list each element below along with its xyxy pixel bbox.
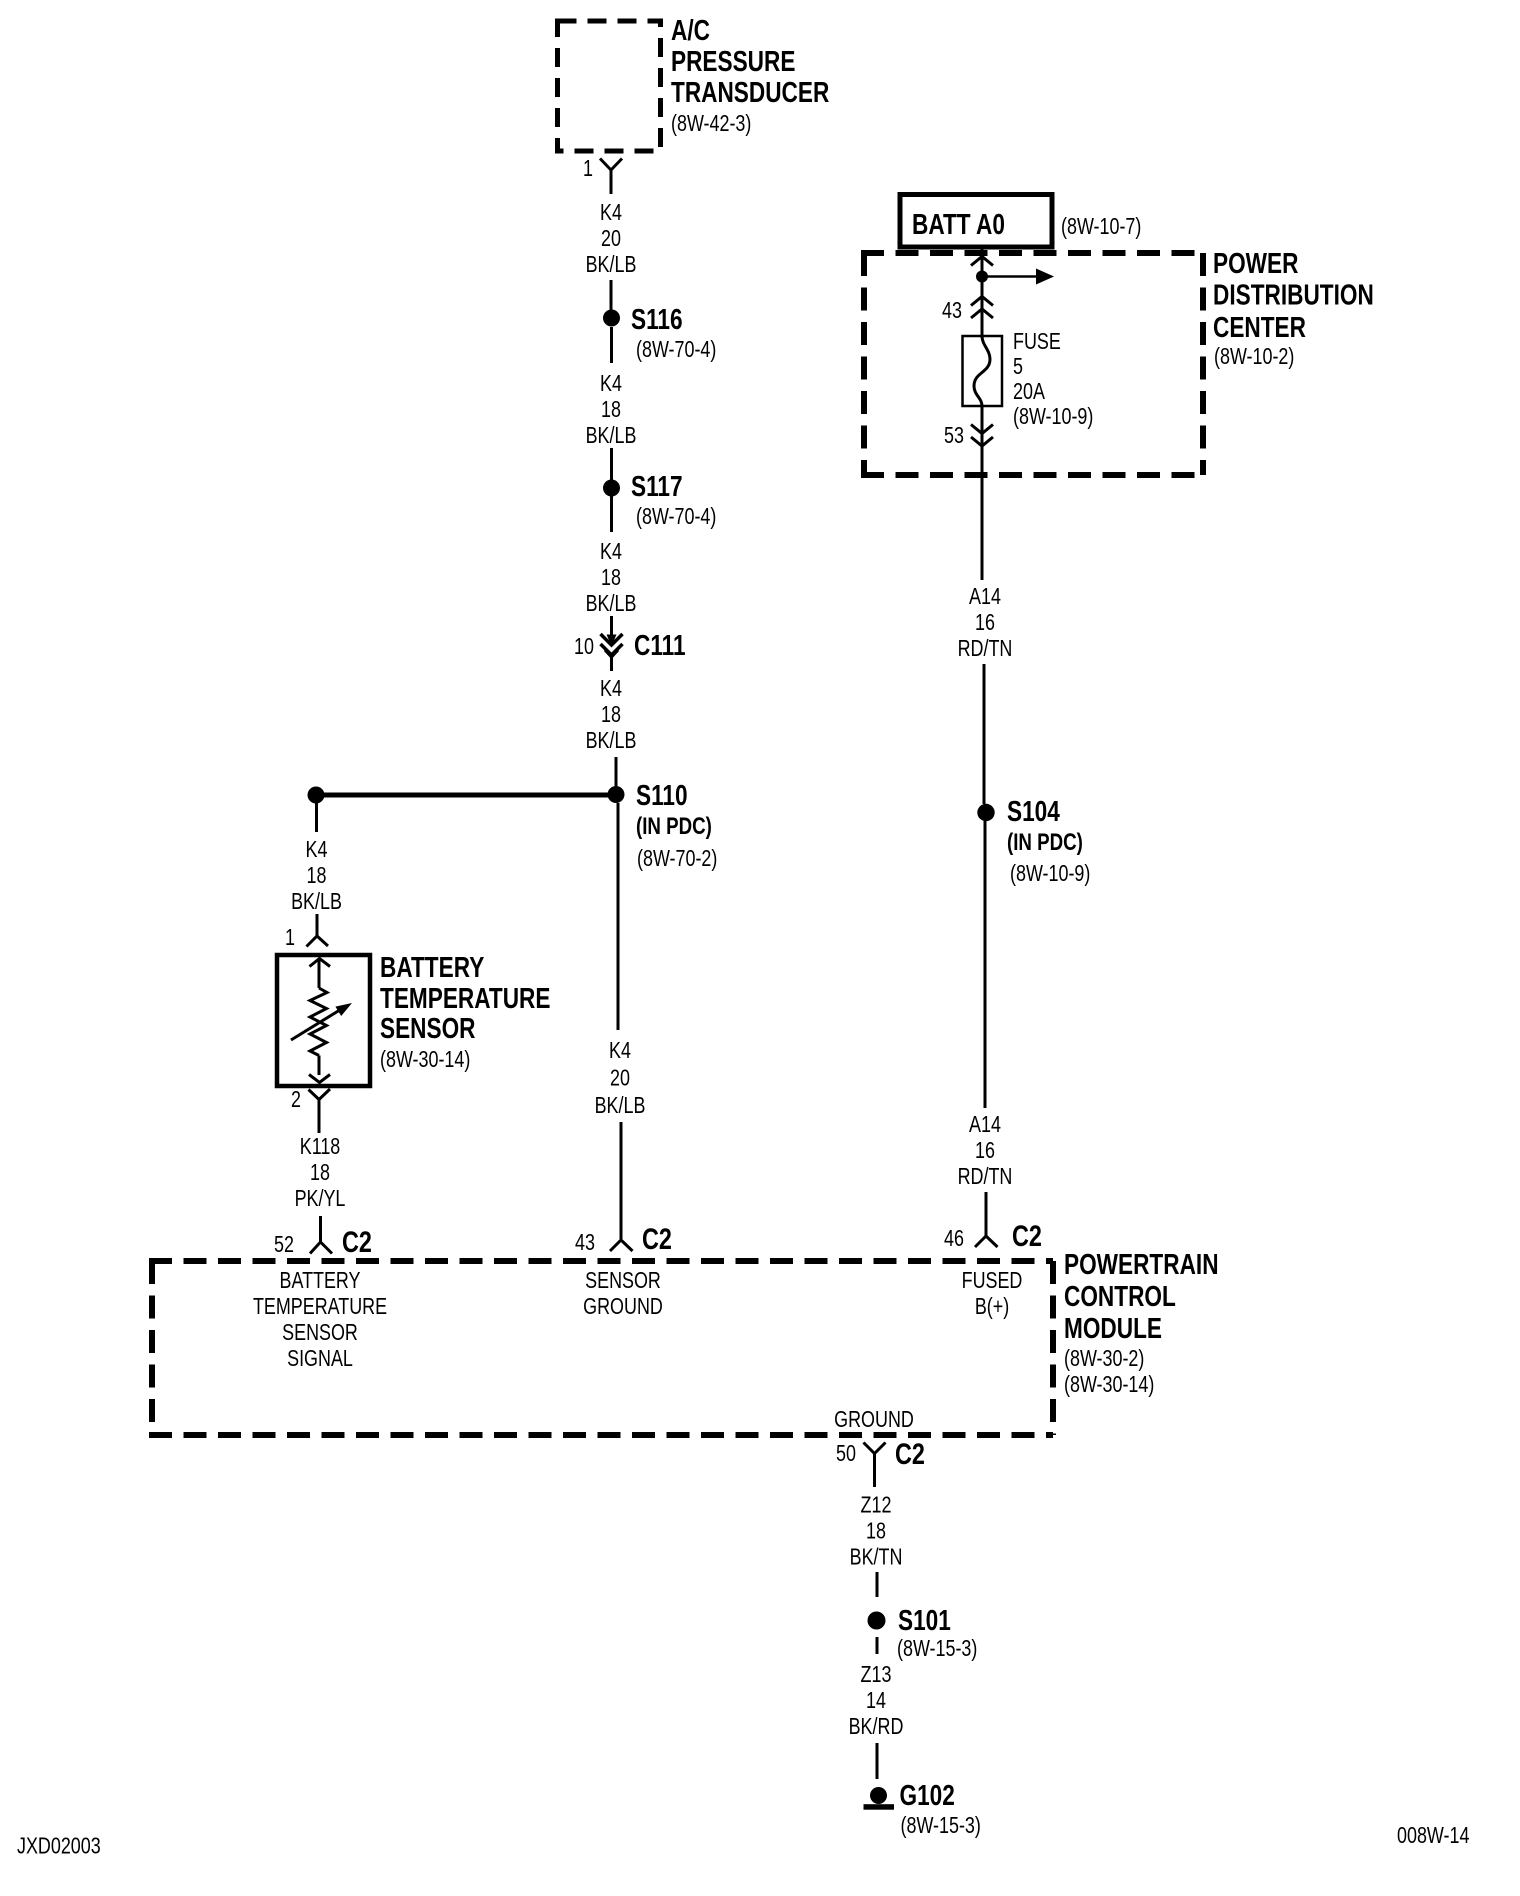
fuse 5 20A <box>963 329 1094 430</box>
sensor ground label <box>583 1268 663 1320</box>
splice S117 <box>603 469 716 529</box>
svg-text:BK/TN: BK/TN <box>850 1544 903 1570</box>
wire <box>610 327 613 363</box>
svg-text:BATTERY: BATTERY <box>279 1268 360 1294</box>
svg-text:BK/LB: BK/LB <box>586 728 637 754</box>
svg-text:BK/LB: BK/LB <box>586 591 637 617</box>
fused B(+) label <box>962 1268 1023 1320</box>
svg-text:(8W-15-3): (8W-15-3) <box>901 1813 981 1839</box>
connector C2 pin 52 <box>274 1225 372 1258</box>
wire <box>610 280 613 310</box>
svg-text:GROUND: GROUND <box>583 1294 663 1320</box>
wire K4 18 BK/LB label <box>586 676 637 754</box>
splice S116 <box>603 302 716 362</box>
svg-text:A14: A14 <box>969 1112 1001 1138</box>
svg-text:18: 18 <box>307 863 327 889</box>
svg-text:C2: C2 <box>895 1437 925 1470</box>
svg-text:43: 43 <box>575 1230 595 1256</box>
svg-text:18: 18 <box>310 1160 330 1186</box>
wire <box>985 1192 988 1236</box>
battery temperature sensor signal label <box>253 1268 387 1372</box>
svg-text:(IN PDC): (IN PDC) <box>1007 829 1083 856</box>
svg-text:K4: K4 <box>306 837 328 863</box>
svg-text:52: 52 <box>274 1232 294 1258</box>
wire <box>876 1572 879 1597</box>
svg-text:RD/TN: RD/TN <box>958 1164 1013 1190</box>
svg-text:(8W-15-3): (8W-15-3) <box>897 1636 977 1662</box>
svg-text:C111: C111 <box>634 628 686 661</box>
svg-text:S110: S110 <box>636 778 688 811</box>
wire from S110 down to C2 pin 43 <box>617 803 620 1030</box>
svg-text:(8W-70-4): (8W-70-4) <box>636 337 716 363</box>
svg-text:BK/LB: BK/LB <box>586 423 637 449</box>
wire <box>610 448 613 480</box>
svg-text:(IN PDC): (IN PDC) <box>636 813 712 840</box>
wire <box>615 757 618 786</box>
battery temperature sensor box <box>277 955 370 1086</box>
splice S110 (IN PDC) <box>608 778 718 871</box>
svg-text:(8W-10-2): (8W-10-2) <box>1214 344 1294 370</box>
svg-text:20: 20 <box>601 226 621 252</box>
thermistor (variable resistor) symbol <box>291 959 352 1083</box>
svg-text:(8W-70-4): (8W-70-4) <box>636 504 716 530</box>
svg-text:(8W-10-7): (8W-10-7) <box>1061 214 1141 240</box>
svg-text:K4: K4 <box>600 200 622 226</box>
power distribution center label <box>1213 246 1374 369</box>
wire <box>876 1743 879 1779</box>
svg-text:MODULE: MODULE <box>1064 1311 1162 1344</box>
svg-text:46: 46 <box>944 1226 964 1252</box>
node junction dot <box>976 271 988 283</box>
svg-text:BK/LB: BK/LB <box>291 889 342 915</box>
svg-text:18: 18 <box>601 397 621 423</box>
svg-text:JXD02003: JXD02003 <box>17 1833 101 1859</box>
svg-text:(8W-70-2): (8W-70-2) <box>637 846 717 872</box>
svg-text:S117: S117 <box>631 469 683 502</box>
A/C pressure transducer box (dashed) <box>558 21 661 151</box>
connector pin 53 (PDC fuse cavity) <box>944 423 993 449</box>
wire K4 18 BK/LB label <box>586 539 637 617</box>
svg-text:K118: K118 <box>300 1134 341 1160</box>
svg-text:14: 14 <box>866 1688 886 1714</box>
svg-text:BATT A0: BATT A0 <box>912 207 1005 240</box>
svg-text:1: 1 <box>285 925 295 951</box>
svg-text:008W-14: 008W-14 <box>1397 1823 1469 1849</box>
svg-text:BATTERY: BATTERY <box>380 950 484 983</box>
svg-text:K4: K4 <box>600 371 622 397</box>
svg-text:(8W-10-9): (8W-10-9) <box>1010 861 1090 887</box>
wire K4 18 BK/LB label <box>291 837 342 915</box>
ground G102 <box>864 1778 981 1838</box>
wire <box>984 820 987 1108</box>
wire K4 20 BK/LB label <box>586 200 637 278</box>
svg-text:1: 1 <box>583 156 593 182</box>
svg-text:SENSOR: SENSOR <box>282 1320 358 1346</box>
svg-text:K4: K4 <box>600 539 622 565</box>
svg-text:SENSOR: SENSOR <box>380 1011 476 1044</box>
svg-text:20: 20 <box>610 1065 630 1091</box>
svg-text:Z13: Z13 <box>861 1662 892 1688</box>
wire below fuse <box>981 406 984 580</box>
svg-text:18: 18 <box>601 565 621 591</box>
svg-text:TEMPERATURE: TEMPERATURE <box>380 981 550 1014</box>
svg-text:B(+): B(+) <box>975 1294 1009 1320</box>
wire K118 18 PK/YL label <box>295 1134 346 1212</box>
svg-text:C2: C2 <box>642 1222 672 1255</box>
svg-text:43: 43 <box>942 298 962 324</box>
svg-text:2: 2 <box>291 1087 301 1113</box>
wire <box>315 803 318 832</box>
svg-text:RD/TN: RD/TN <box>958 636 1013 662</box>
svg-text:POWER: POWER <box>1213 246 1299 279</box>
svg-text:5: 5 <box>1013 354 1023 380</box>
svg-text:PRESSURE: PRESSURE <box>671 44 795 77</box>
svg-text:C2: C2 <box>342 1225 372 1258</box>
splice S104 (IN PDC) <box>977 794 1090 886</box>
svg-text:16: 16 <box>975 1138 995 1164</box>
svg-text:GROUND: GROUND <box>834 1407 914 1433</box>
wire <box>983 664 986 804</box>
svg-text:(8W-30-14): (8W-30-14) <box>380 1047 470 1073</box>
wire A14 16 RD/TN label <box>958 584 1013 662</box>
arrow up to BATT A0 <box>971 257 993 266</box>
svg-text:SENSOR: SENSOR <box>585 1268 661 1294</box>
svg-text:FUSED: FUSED <box>962 1268 1023 1294</box>
svg-text:10: 10 <box>574 634 594 660</box>
svg-text:BK/RD: BK/RD <box>849 1714 904 1740</box>
svg-text:PK/YL: PK/YL <box>295 1186 346 1212</box>
svg-text:CENTER: CENTER <box>1213 310 1306 343</box>
svg-text:53: 53 <box>944 423 964 449</box>
connector C2 pin 46 <box>944 1219 1042 1252</box>
wire K4 18 BK/LB label <box>586 371 637 449</box>
svg-text:Z12: Z12 <box>861 1492 892 1518</box>
svg-text:BK/LB: BK/LB <box>595 1093 646 1119</box>
wire from S110 to battery temperature sensor branch <box>316 793 616 798</box>
svg-text:16: 16 <box>975 610 995 636</box>
BATT A0 box <box>900 195 1052 248</box>
wire A14 16 RD/TN label <box>958 1112 1013 1190</box>
wire <box>319 1216 322 1242</box>
svg-text:TEMPERATURE: TEMPERATURE <box>253 1294 387 1320</box>
svg-text:(8W-30-2): (8W-30-2) <box>1064 1346 1144 1372</box>
power distribution center box (dashed) <box>861 253 1203 475</box>
svg-text:50: 50 <box>836 1441 856 1467</box>
svg-text:18: 18 <box>866 1518 886 1544</box>
svg-text:G102: G102 <box>900 1778 955 1811</box>
svg-text:SIGNAL: SIGNAL <box>287 1346 353 1372</box>
powertrain control module box (dashed) <box>149 1261 1053 1435</box>
svg-text:(8W-42-3): (8W-42-3) <box>671 111 751 137</box>
svg-text:K4: K4 <box>600 676 622 702</box>
wire <box>610 496 613 532</box>
wire <box>620 1122 623 1239</box>
wire <box>876 1637 879 1654</box>
connector pin 43 (PDC fuse cavity) <box>942 297 993 324</box>
svg-text:K4: K4 <box>609 1038 631 1064</box>
svg-text:C2: C2 <box>1012 1219 1042 1252</box>
wire Z13 14 BK/RD label <box>849 1662 904 1740</box>
connector C111 pin 10 <box>574 616 686 671</box>
svg-text:CONTROL: CONTROL <box>1064 1279 1176 1312</box>
svg-text:18: 18 <box>601 702 621 728</box>
svg-text:S116: S116 <box>631 302 683 335</box>
svg-text:BK/LB: BK/LB <box>586 252 637 278</box>
svg-text:A14: A14 <box>969 584 1001 610</box>
connector C2 pin 50 <box>836 1437 925 1487</box>
svg-text:POWERTRAIN: POWERTRAIN <box>1064 1247 1219 1280</box>
powertrain control module label <box>1064 1247 1219 1397</box>
connector fork pin 2 (battery temperature sensor) <box>309 1089 331 1133</box>
splice S101 <box>868 1603 978 1661</box>
svg-text:(8W-30-14): (8W-30-14) <box>1064 1372 1154 1398</box>
svg-text:FUSE: FUSE <box>1013 329 1061 355</box>
wire K4 20 BK/LB label <box>595 1038 646 1119</box>
A/C pressure transducer label <box>671 13 829 136</box>
svg-text:S104: S104 <box>1007 794 1060 827</box>
svg-text:DISTRIBUTION: DISTRIBUTION <box>1213 278 1374 311</box>
svg-text:TRANSDUCER: TRANSDUCER <box>671 75 829 108</box>
node junction dot left <box>308 787 325 804</box>
svg-text:20A: 20A <box>1013 379 1045 405</box>
connector fork pin 1 (battery temperature sensor) <box>307 914 329 947</box>
connector C2 pin 43 <box>575 1222 672 1255</box>
branch arrow to right <box>982 269 1054 285</box>
svg-text:(8W-10-9): (8W-10-9) <box>1013 404 1093 430</box>
battery temperature sensor label <box>380 950 550 1072</box>
svg-text:A/C: A/C <box>671 13 710 46</box>
svg-text:S101: S101 <box>898 1603 951 1636</box>
wire from BATT A0 into PDC <box>981 247 984 338</box>
wire Z12 18 BK/TN label <box>850 1492 903 1570</box>
connector fork pin 1 (A/C transducer) <box>600 159 622 195</box>
